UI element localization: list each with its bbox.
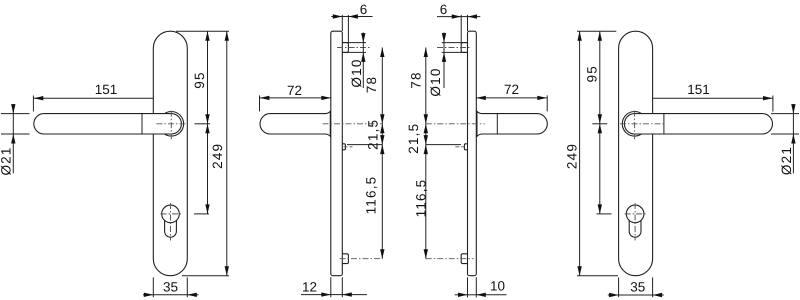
extension line plate-top view1	[176, 30, 229, 32]
dimension 10 view3	[467, 277, 469, 297]
svg-text:72: 72	[504, 82, 519, 97]
svg-text:Ø10: Ø10	[349, 58, 364, 87]
dimension 95 view4	[599, 31, 601, 124]
centreline top screw view2	[337, 47, 371, 49]
dimension 72 view3	[476, 97, 547, 99]
svg-text:21,5: 21,5	[406, 123, 421, 154]
extension line cylinder-centre view1	[194, 213, 209, 215]
rose circle view4	[622, 112, 647, 137]
dimension 21,5 view3	[425, 124, 427, 145]
centreline vertical cylinder view4	[634, 203, 636, 241]
top screw boss view2	[342, 43, 348, 53]
svg-text:Ø21: Ø21	[779, 146, 794, 175]
euro cylinder hole view1	[162, 205, 180, 223]
dimension 151 view1	[34, 97, 182, 99]
dimension 72 view2	[260, 97, 331, 99]
svg-text:10: 10	[490, 279, 505, 294]
rose circle view1	[159, 112, 184, 137]
centreline vertical neck view4	[634, 111, 636, 140]
dimension 116,5 view2	[381, 145, 383, 259]
svg-text:116,5: 116,5	[363, 176, 378, 215]
svg-text:151: 151	[687, 82, 710, 97]
dimension Ø21 view4	[771, 113, 799, 115]
centreline middle bump view2	[344, 146, 353, 148]
grip neck tick view3	[496, 114, 498, 134]
dimension 6 view3	[460, 15, 462, 43]
svg-text:95: 95	[585, 65, 600, 82]
bottom screw boss view3	[461, 254, 467, 264]
svg-text:72: 72	[287, 83, 302, 98]
backplate side view2	[331, 31, 343, 276]
dimension 78 view2	[381, 48, 383, 124]
svg-text:21,5: 21,5	[366, 119, 381, 150]
centreline horizontal cylinder view1	[161, 213, 182, 215]
centreline handle view2	[323, 123, 383, 125]
bottom screw boss view2	[342, 254, 348, 264]
svg-text:78: 78	[364, 76, 379, 93]
svg-text:35: 35	[163, 280, 178, 295]
dimension 21,5 view2	[381, 124, 383, 145]
dimension 12 view2	[330, 277, 332, 297]
svg-text:95: 95	[192, 71, 207, 88]
svg-text:Ø10: Ø10	[428, 67, 443, 96]
extension line handle-centre view4	[592, 123, 607, 125]
lever neck tick view4	[663, 114, 665, 134]
dimension 249 view4	[579, 31, 581, 276]
screw hole extension lines view3	[442, 42, 468, 44]
backplate side view3	[468, 31, 477, 276]
dimension segment handle-to-cylinder view1	[207, 124, 209, 214]
svg-text:35: 35	[630, 280, 645, 295]
dimension 6 view2	[341, 15, 343, 31]
lever neck tick view1	[141, 114, 143, 134]
centreline vertical cylinder view1	[170, 203, 172, 241]
svg-text:Ø21: Ø21	[0, 146, 13, 175]
handle grip side view2	[260, 111, 330, 136]
middle fixing bump view3	[464, 144, 467, 150]
centreline vertical neck view1	[170, 111, 172, 140]
svg-text:6: 6	[360, 2, 368, 17]
dimension Ø10 view3	[443, 33, 445, 43]
svg-text:151: 151	[95, 82, 118, 97]
handle grip side view3	[477, 111, 547, 136]
dimension segment handle-to-cylinder view4	[599, 124, 601, 214]
dimension 95 view1	[207, 31, 209, 124]
centreline middle bump view3	[455, 146, 464, 148]
extension line middle bump view3	[426, 144, 461, 146]
dimension 35 view4	[618, 277, 620, 297]
svg-text:116,5: 116,5	[414, 179, 429, 218]
extension line cylinder-centre view4	[597, 213, 612, 215]
centreline horizontal cylinder view4	[625, 213, 646, 215]
centreline handle view3	[426, 123, 485, 125]
centreline bottom screw view2	[340, 258, 383, 260]
lever handle view1	[34, 114, 182, 134]
svg-text:249: 249	[210, 143, 225, 169]
middle fixing bump view2	[342, 144, 345, 150]
lever handle view4	[624, 114, 772, 134]
svg-text:78: 78	[409, 71, 424, 88]
centreline top screw view3	[437, 47, 471, 49]
bell rim line view2	[329, 111, 331, 136]
top screw boss view3	[461, 43, 467, 53]
bell rim line view3	[476, 111, 478, 136]
extension line plate-bottom view1	[182, 275, 229, 277]
extension line handle-centre view1	[195, 123, 211, 125]
screw hole extension lines view2	[342, 42, 366, 44]
backplate view1	[153, 31, 187, 276]
dimension 249 view1	[226, 31, 228, 276]
centreline bottom screw view3	[426, 258, 474, 260]
dimension Ø21 view1	[1, 113, 30, 115]
extension line plate-bottom view4	[577, 275, 618, 277]
backplate view4	[619, 31, 653, 276]
dimension 78 view3	[425, 48, 427, 124]
dimension 151 view4	[625, 97, 773, 99]
dimension Ø10 view2	[362, 33, 364, 43]
centreline horizontal neck view4	[620, 123, 664, 125]
svg-text:12: 12	[302, 279, 317, 294]
dimension 116,5 view3	[425, 145, 427, 259]
centreline horizontal neck view1	[156, 123, 185, 125]
svg-text:249: 249	[565, 143, 580, 169]
dimension 35 view1	[152, 277, 154, 297]
extension line plate-top view4	[577, 30, 616, 32]
extension line middle bump view2	[347, 144, 382, 146]
svg-text:6: 6	[440, 2, 448, 17]
euro cylinder hole view4	[626, 205, 644, 223]
